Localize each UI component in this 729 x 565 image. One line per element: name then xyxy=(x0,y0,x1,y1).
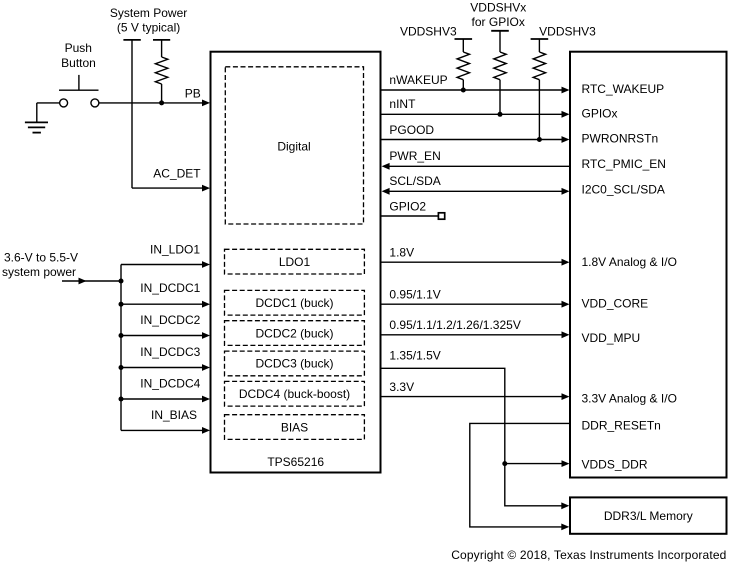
svg-text:BIAS: BIAS xyxy=(281,420,308,434)
svg-text:PWRONRSTn: PWRONRSTn xyxy=(582,131,659,145)
svg-text:IN_DCDC2: IN_DCDC2 xyxy=(140,313,200,327)
svg-text:DCDC4 (buck-boost): DCDC4 (buck-boost) xyxy=(239,387,350,401)
svg-text:1.8V Analog & I/O: 1.8V Analog & I/O xyxy=(582,255,677,269)
svg-text:1.8V: 1.8V xyxy=(389,245,414,259)
svg-text:nINT: nINT xyxy=(389,97,416,111)
svg-text:System Power: System Power xyxy=(110,6,187,20)
svg-text:DCDC2 (buck): DCDC2 (buck) xyxy=(255,326,333,340)
svg-text:GPIOx: GPIOx xyxy=(582,106,618,120)
svg-text:IN_BIAS: IN_BIAS xyxy=(151,408,197,422)
svg-text:TPS65216: TPS65216 xyxy=(267,455,324,469)
svg-text:AC_DET: AC_DET xyxy=(153,167,201,181)
svg-text:VDD_MPU: VDD_MPU xyxy=(582,331,641,345)
svg-text:SCL/SDA: SCL/SDA xyxy=(389,174,440,188)
svg-text:RTC_PMIC_EN: RTC_PMIC_EN xyxy=(582,157,666,171)
svg-text:(5 V typical): (5 V typical) xyxy=(117,20,180,34)
svg-text:for GPIOx: for GPIOx xyxy=(472,15,525,29)
svg-text:3.3V Analog & I/O: 3.3V Analog & I/O xyxy=(582,391,677,405)
svg-text:PWR_EN: PWR_EN xyxy=(389,149,440,163)
svg-text:nWAKEUP: nWAKEUP xyxy=(389,73,447,87)
svg-text:IN_DCDC3: IN_DCDC3 xyxy=(140,345,200,359)
svg-text:PGOOD: PGOOD xyxy=(389,123,434,137)
svg-text:DCDC1 (buck): DCDC1 (buck) xyxy=(255,296,333,310)
svg-text:3.6-V to 5.5-V: 3.6-V to 5.5-V xyxy=(4,251,78,265)
svg-text:VDDS_DDR: VDDS_DDR xyxy=(582,457,648,471)
svg-text:PB: PB xyxy=(185,86,201,100)
svg-text:3.3V: 3.3V xyxy=(389,380,414,394)
svg-text:Push: Push xyxy=(65,41,92,55)
svg-text:DDR_RESETn: DDR_RESETn xyxy=(582,419,661,433)
svg-text:VDDSHVx: VDDSHVx xyxy=(470,1,526,15)
svg-text:system power: system power xyxy=(2,265,76,279)
svg-text:1.35/1.5V: 1.35/1.5V xyxy=(389,349,440,363)
svg-text:IN_LDO1: IN_LDO1 xyxy=(150,242,200,256)
svg-text:Button: Button xyxy=(61,56,96,70)
svg-text:RTC_WAKEUP: RTC_WAKEUP xyxy=(582,82,665,96)
svg-text:Copyright © 2018, Texas Instru: Copyright © 2018, Texas Instruments Inco… xyxy=(451,548,726,562)
svg-text:DCDC3 (buck): DCDC3 (buck) xyxy=(255,357,333,371)
svg-text:0.95/1.1/1.2/1.26/1.325V: 0.95/1.1/1.2/1.26/1.325V xyxy=(389,318,520,332)
svg-text:IN_DCDC4: IN_DCDC4 xyxy=(140,377,200,391)
svg-text:DDR3/L Memory: DDR3/L Memory xyxy=(604,509,693,523)
svg-text:IN_DCDC1: IN_DCDC1 xyxy=(140,281,200,295)
svg-text:GPIO2: GPIO2 xyxy=(389,199,426,213)
svg-text:I2C0_SCL/SDA: I2C0_SCL/SDA xyxy=(582,182,665,196)
svg-text:VDD_CORE: VDD_CORE xyxy=(582,296,649,310)
svg-text:0.95/1.1V: 0.95/1.1V xyxy=(389,287,440,301)
svg-text:LDO1: LDO1 xyxy=(279,255,311,269)
svg-text:VDDSHV3: VDDSHV3 xyxy=(400,24,457,38)
svg-text:Digital: Digital xyxy=(277,140,310,154)
svg-text:VDDSHV3: VDDSHV3 xyxy=(539,24,596,38)
